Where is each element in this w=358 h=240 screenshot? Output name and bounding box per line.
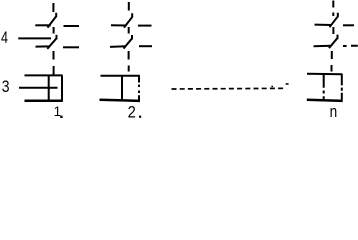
unit n shaft (dashed vertical) bbox=[332, 1, 334, 72]
svg-text:n: n bbox=[330, 103, 338, 120]
leader line from label 3 bbox=[19, 87, 58, 89]
svg-text:3: 3 bbox=[2, 78, 10, 96]
unit 2 contact row B wire right bbox=[139, 45, 152, 47]
unit n drive box bbox=[307, 74, 343, 101]
unit n contact row B blade bbox=[329, 35, 338, 49]
unit 1 contact row A wire right bbox=[64, 25, 80, 27]
unit 2 contact row A blade bbox=[124, 13, 132, 27]
unit 1 contact row B wire left bbox=[36, 45, 50, 47]
unit n contact row A blade bbox=[330, 13, 338, 27]
unit 1 drive box bbox=[25, 75, 63, 100]
label 1. bbox=[54, 104, 63, 119]
unit 1 contact row A blade bbox=[48, 13, 57, 28]
unit 1 shaft (dashed vertical) bbox=[52, 3, 54, 75]
continuation dashes (middle ellipsis) bbox=[172, 87, 286, 90]
unit n contact row B wire right (dashed continuation) bbox=[343, 45, 358, 47]
leader line from label 4 bbox=[18, 37, 51, 39]
unit 1 contact row A wire left bbox=[35, 24, 50, 26]
unit n contact row B wire left bbox=[314, 45, 332, 48]
unit n contact row A wire left bbox=[315, 24, 332, 26]
svg-text:1: 1 bbox=[54, 104, 62, 119]
unit 2 contact row A wire left bbox=[111, 24, 127, 26]
unit 2 drive box bbox=[100, 76, 141, 101]
stray mark near dashes bbox=[271, 83, 288, 87]
unit 1 contact row B blade bbox=[47, 35, 56, 49]
unit 2 contact row B wire left bbox=[110, 45, 126, 48]
unit n contact row A wire right bbox=[343, 24, 354, 26]
label 2. bbox=[128, 104, 142, 122]
svg-text:2: 2 bbox=[128, 104, 136, 120]
unit 2 shaft (dashed vertical) bbox=[128, 2, 130, 72]
svg-text:4: 4 bbox=[1, 29, 8, 47]
unit 2 contact row B blade bbox=[124, 35, 133, 49]
unit 2 contact row A wire right bbox=[138, 25, 152, 27]
unit 1 contact row B wire right bbox=[63, 46, 79, 48]
